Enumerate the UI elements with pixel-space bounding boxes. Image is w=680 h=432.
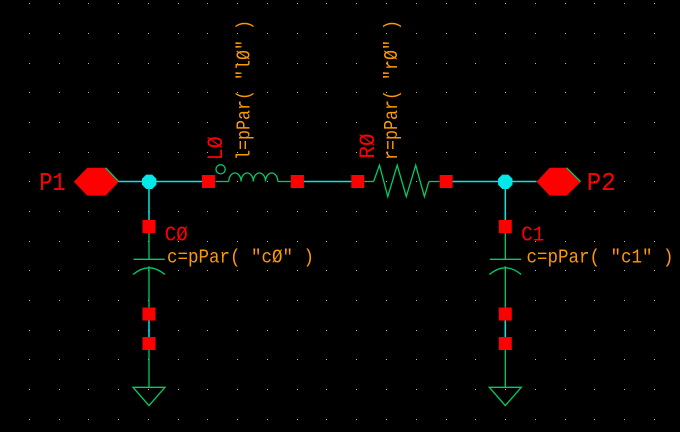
port P2 hexagon	[537, 168, 581, 196]
wire: capacitor C0 bottom pin to ground pin	[148, 321, 150, 338]
pin square: L0 left pin	[202, 175, 215, 188]
pin square: L0 right pin	[291, 175, 304, 188]
pin square: gnd0 pin	[143, 337, 156, 350]
resistor R0	[364, 165, 439, 196]
svg-text:c=pPar( "cØ" ): c=pPar( "cØ" )	[167, 247, 314, 269]
svg-text:CØ: CØ	[165, 225, 188, 248]
svg-text:RØ: RØ	[356, 134, 381, 159]
pin square: CØ bottom pin	[143, 308, 156, 321]
capacitor CØ	[133, 233, 165, 308]
pin square: gnd1 pin	[499, 337, 512, 350]
pin square: C1 top pin	[499, 220, 512, 233]
node N1 junction dot	[142, 175, 156, 189]
ground gnd1	[489, 350, 521, 406]
svg-text:c=pPar( "c1" ): c=pPar( "c1" )	[527, 247, 674, 269]
svg-text:LØ: LØ	[204, 136, 229, 160]
svg-text:P1: P1	[39, 168, 65, 198]
wire: node N1 down to capacitor C0 top pin	[148, 182, 150, 222]
svg-text:P2: P2	[587, 168, 616, 198]
wire: node N2 down to capacitor C1 top pin	[504, 182, 506, 222]
wire: capacitor C1 bottom pin to ground pin	[504, 321, 506, 338]
inductor L0	[215, 165, 291, 182]
wire: resistor R0 right pin to port P2 (through node N2)	[452, 181, 537, 183]
svg-text:r=pPar( "rØ" ): r=pPar( "rØ" )	[381, 20, 403, 160]
port P1 hexagon	[74, 168, 119, 196]
node N2 junction dot	[498, 175, 512, 189]
capacitor C1	[489, 233, 521, 308]
svg-text:C1: C1	[521, 225, 544, 248]
ground gnd0	[133, 350, 165, 406]
pin square: R0 right pin	[440, 175, 453, 188]
svg-text:l=pPar( "lØ" ): l=pPar( "lØ" )	[234, 20, 256, 160]
pin square: CØ top pin	[143, 220, 156, 233]
pin square: C1 bottom pin	[499, 308, 512, 321]
pin square: R0 left pin	[351, 175, 364, 188]
wire: inductor L0 right pin to resistor R0 left pin	[303, 181, 352, 183]
wire: P1 to inductor L0 left pin (through node N1)	[119, 181, 203, 183]
